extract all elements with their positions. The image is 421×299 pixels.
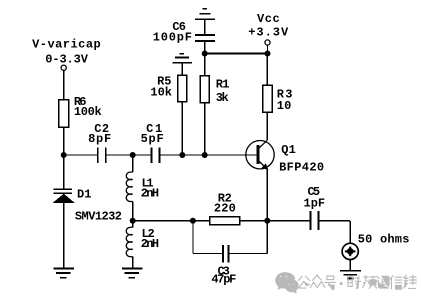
wire collector diagonal: [259, 140, 267, 148]
wire R1 to base rail: [204, 103, 206, 155]
junction R2 C3 left: [190, 218, 196, 224]
watermark middle dot: [340, 282, 343, 285]
wire source to ground: [349, 260, 351, 270]
capacitor C5: [310, 211, 312, 230]
wire C5 to output: [319, 220, 350, 222]
inductor L2: [126, 227, 132, 257]
wire C3 right rise: [266, 221, 268, 254]
capacitor C2: [97, 147, 99, 162]
transistor Q1 circle: [246, 141, 274, 169]
wire emitter diagonal: [259, 162, 265, 168]
junction R6 D1 base: [61, 152, 67, 158]
ground under L2: [122, 268, 143, 270]
junction R1 base: [202, 152, 208, 158]
wire base rail segment 2: [107, 154, 152, 156]
svg-text:100pF: 100pF: [153, 31, 192, 45]
wire D1 to ground: [63, 202, 65, 267]
wire L2 to ground: [132, 257, 134, 268]
svg-text:50 ohms: 50 ohms: [358, 233, 410, 247]
capacitor C3: [222, 245, 224, 263]
svg-text:V-varicap: V-varicap: [32, 37, 101, 51]
junction C6 rail: [202, 51, 208, 57]
resistor R6: [59, 100, 69, 128]
svg-text:5pF: 5pF: [141, 132, 164, 146]
capacitor C1: [151, 147, 153, 162]
svg-text:D1: D1: [77, 188, 92, 202]
junction emitter R2 C3: [264, 218, 270, 224]
wire R1 top: [204, 54, 206, 76]
junction L1 L2: [130, 218, 136, 224]
watermark char xin: [390, 276, 402, 290]
wire Vcc to R3: [266, 54, 268, 86]
wire C3 right horizontal: [229, 252, 267, 254]
svg-text:2nH: 2nH: [141, 187, 159, 201]
wire L2 top: [132, 221, 134, 228]
wire ground to R5: [181, 63, 183, 75]
wire emitter down: [266, 169, 268, 221]
junction R5 base: [179, 152, 185, 158]
inductor L1: [126, 172, 132, 202]
wire output down to source: [349, 221, 351, 243]
wire C3 left horizontal: [193, 252, 223, 254]
svg-text:+3.3V: +3.3V: [248, 25, 289, 39]
source inner symbol: [348, 249, 353, 254]
svg-text:10k: 10k: [150, 86, 172, 100]
resistor R5: [178, 75, 187, 102]
resistor R1: [200, 76, 209, 103]
resistor R3: [263, 85, 272, 112]
wire Vcc rail: [205, 52, 268, 54]
svg-text:R1: R1: [216, 78, 230, 92]
svg-text:220: 220: [214, 202, 236, 216]
diode D1 triangle: [54, 194, 73, 202]
wire L1 to junction: [132, 201, 134, 220]
wire resonator junction to R2: [133, 220, 210, 222]
svg-text:47pF: 47pF: [211, 272, 236, 286]
svg-text:10: 10: [277, 99, 292, 113]
wire R6 to base rail: [63, 127, 65, 155]
svg-text:1pF: 1pF: [304, 197, 326, 211]
wire base rail segment 3: [160, 154, 256, 156]
svg-text:100k: 100k: [74, 105, 102, 119]
svg-text:Q1: Q1: [281, 143, 296, 157]
emitter arrowhead: [262, 163, 269, 170]
svg-text:8pF: 8pF: [88, 132, 111, 146]
junction L1 base: [130, 152, 136, 158]
wire C6 to Vcc rail: [204, 42, 206, 54]
resistor R2: [210, 217, 240, 225]
svg-text:SMV1232: SMV1232: [75, 210, 122, 224]
ground under source: [340, 270, 361, 272]
junction Vcc rail: [265, 51, 271, 57]
wire L1 top: [132, 155, 134, 172]
node V-varicap terminal: [61, 65, 66, 70]
svg-text:0-3.3V: 0-3.3V: [45, 53, 89, 67]
watermark char pin: [363, 275, 377, 288]
watermark char hao: [325, 276, 336, 290]
ground above C6: [203, 8, 207, 10]
watermark wechat icon: [276, 273, 295, 290]
ground above R5: [180, 53, 184, 55]
watermark char she: [348, 276, 361, 289]
wire C3 left drop: [192, 221, 194, 254]
wire varicap node to R6: [63, 71, 65, 100]
wire R5 to base rail: [181, 102, 183, 156]
watermark char gong: [298, 276, 309, 288]
wire R2 right to C5: [240, 220, 310, 222]
wire R3 to collector: [266, 112, 268, 140]
capacitor C6: [195, 34, 215, 36]
diode D1 varactor bars: [54, 188, 73, 190]
svg-text:2nH: 2nH: [141, 237, 159, 251]
watermark char tong: [377, 276, 389, 288]
transistor Q1 base bar: [257, 145, 260, 164]
wire base rail segment 1: [64, 154, 97, 156]
wire ground to C6: [204, 19, 206, 34]
watermark char lian: [404, 275, 417, 288]
wire Vcc node down: [267, 45, 269, 53]
node Vcc terminal: [265, 40, 270, 45]
svg-text:BFP420: BFP420: [279, 161, 324, 175]
source 50 ohms circle: [342, 243, 358, 259]
watermark char zhong: [310, 275, 324, 287]
wire D1 top: [63, 155, 65, 189]
ground under D1: [53, 268, 74, 270]
svg-text:Vcc: Vcc: [257, 12, 280, 26]
svg-text:3k: 3k: [216, 91, 229, 105]
